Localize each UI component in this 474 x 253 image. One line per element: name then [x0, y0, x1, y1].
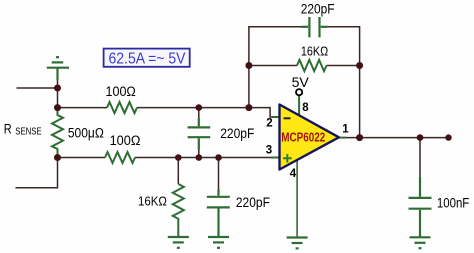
svg-text:220pF: 220pF	[220, 126, 254, 141]
op-amp U1 pin 8 supply stem	[298, 96, 300, 118]
wire: 220pF bottom lead from node	[218, 158, 220, 190]
wire: feedback right vertical	[328, 27, 360, 138]
pin 3 green stub	[271, 157, 280, 159]
ground under 220pF bottom	[208, 237, 229, 248]
capacitor 220pF feedback (horizontal)	[301, 17, 328, 37]
wire: output row	[345, 137, 449, 139]
pin 1 green stub	[339, 137, 346, 139]
svg-text:220pF: 220pF	[301, 1, 335, 16]
node: output terminal dot	[445, 134, 451, 140]
junction: 16K shunt / pin3 net	[175, 154, 182, 161]
svg-text:100Ω: 100Ω	[110, 133, 141, 148]
wire: top-left stub to battery node	[17, 87, 58, 89]
svg-text:8: 8	[302, 102, 309, 114]
resistor R sense 500uO vertical	[52, 108, 63, 158]
wire: mid 220pF bottom lead	[198, 150, 200, 158]
resistor 100 ohm bottom	[105, 152, 135, 163]
junction: 100nF / output node	[417, 134, 424, 141]
junction: feedback / output node	[356, 134, 363, 141]
ground under op-amp pin 4	[287, 238, 308, 249]
svg-text:MCP6022: MCP6022	[281, 130, 325, 145]
capacitor 100nF output	[409, 177, 432, 237]
capacitor 220pF mid (between inputs)	[188, 118, 211, 150]
wire: bottom input row (pin 3 net)	[58, 157, 272, 159]
wire: 16K bottom lead from node	[177, 158, 179, 185]
pin 2 green stub	[272, 116, 280, 118]
junction: bottom 220pF / pin3 net	[215, 154, 222, 161]
wire: left vertical bus	[57, 79, 59, 113]
svg-text:R: R	[4, 122, 12, 137]
resistor 16K bottom vertical	[173, 184, 184, 237]
svg-text:2: 2	[266, 118, 272, 130]
junction: mid 220pF bottom / pin3 net	[196, 154, 203, 161]
svg-text:100nF: 100nF	[437, 195, 469, 210]
battery/rail symbol top-left (inverted ground)	[47, 57, 69, 80]
junction: feedback 16K left	[245, 62, 252, 69]
ground under 100nF	[410, 237, 431, 248]
op-amp plus mark	[283, 154, 292, 163]
resistor 100 ohm top	[107, 102, 137, 113]
svg-text:4: 4	[290, 168, 297, 180]
svg-text:5V: 5V	[292, 75, 309, 90]
op-amp U1 MCP6022 triangle	[280, 105, 339, 170]
wire: 100nF drop	[419, 138, 421, 177]
svg-text:500μΩ: 500μΩ	[68, 126, 104, 141]
junction: feedback 16K right	[356, 62, 363, 69]
svg-text:1: 1	[342, 124, 349, 136]
junction: R sense top / top input row	[54, 104, 61, 111]
svg-text:3: 3	[266, 144, 272, 156]
wire: bottom-left stub	[16, 158, 58, 188]
wire: top input row (pin 2 net)	[58, 108, 273, 117]
svg-text:62.5A =~ 5V: 62.5A =~ 5V	[109, 51, 187, 68]
svg-text:220pF: 220pF	[236, 195, 270, 210]
svg-text:SENSE: SENSE	[15, 126, 41, 138]
5V supply terminal circle	[296, 89, 302, 95]
junction: feedback tap on pin2 net	[245, 104, 252, 111]
junction: R sense bottom / bottom input row	[54, 154, 61, 161]
op-amp minus mark	[284, 117, 291, 119]
wire: mid 220pF top lead	[198, 108, 200, 119]
svg-text:100Ω: 100Ω	[106, 84, 136, 99]
junction: mid 220pF top / pin2 net	[196, 104, 203, 111]
wire: feedback left vertical	[249, 27, 301, 108]
junction: rail stub / left bus	[54, 85, 61, 92]
ground under 16K	[168, 237, 189, 248]
annotation box 62.5A =~ 5V	[104, 49, 190, 67]
capacitor 220pF bottom	[207, 189, 230, 237]
op-amp U1 pin 4 ground stem	[296, 158, 298, 237]
resistor 16K feedback horizontal	[297, 60, 327, 71]
svg-text:16KΩ: 16KΩ	[138, 193, 167, 208]
svg-text:16KΩ: 16KΩ	[301, 44, 329, 59]
wire: 16K feedback row leads	[249, 65, 360, 67]
